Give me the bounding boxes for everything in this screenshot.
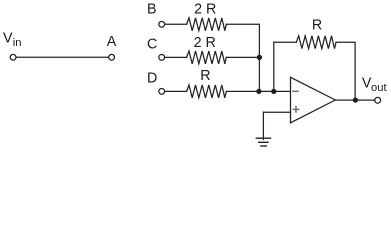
terminal B [159, 21, 165, 27]
wire B resistor to bus corner [226, 24, 259, 91]
wire D resistor to op-amp inverting input [226, 90, 290, 92]
svg-text:D: D [147, 71, 157, 87]
wire feedback branch left [274, 41, 297, 43]
wire C resistor to bus [226, 56, 259, 58]
resistor R (row D) [187, 85, 227, 98]
wire feedback branch right [336, 42, 355, 100]
resistor 2R (row C) [187, 51, 227, 64]
junction bus B-C [257, 55, 262, 60]
op-amp U1 [291, 77, 336, 123]
terminal C [159, 55, 165, 61]
svg-text:R: R [312, 18, 322, 34]
resistor 2R (row B) [187, 18, 227, 31]
svg-text:2 R: 2 R [194, 1, 216, 17]
junction output node [353, 98, 358, 103]
op-amp minus sign [292, 90, 299, 92]
wire non-inverting input [263, 111, 290, 113]
junction bus D [256, 89, 261, 94]
wire feedback riser [273, 42, 275, 91]
svg-text:V: V [3, 31, 13, 47]
wire output [335, 99, 374, 101]
terminal D [159, 89, 165, 95]
resistor R (feedback) [296, 36, 336, 49]
svg-text:B: B [147, 2, 157, 18]
wire ground drop [262, 112, 264, 139]
terminal Vout [375, 97, 381, 103]
wire Vin to A [16, 56, 108, 58]
wire C to resistor [165, 56, 187, 58]
wire B to resistor [165, 23, 187, 25]
svg-text:2 R: 2 R [194, 35, 216, 51]
svg-text:in: in [13, 37, 22, 49]
terminal Vin [10, 54, 16, 60]
svg-text:out: out [371, 82, 387, 94]
junction feedback node [271, 89, 276, 94]
svg-text:A: A [107, 34, 117, 50]
svg-text:C: C [147, 36, 157, 52]
op-amp plus sign [293, 106, 300, 113]
node A terminal [109, 54, 115, 60]
ground [256, 138, 270, 146]
wire D to resistor [165, 90, 187, 92]
svg-text:R: R [200, 68, 210, 84]
